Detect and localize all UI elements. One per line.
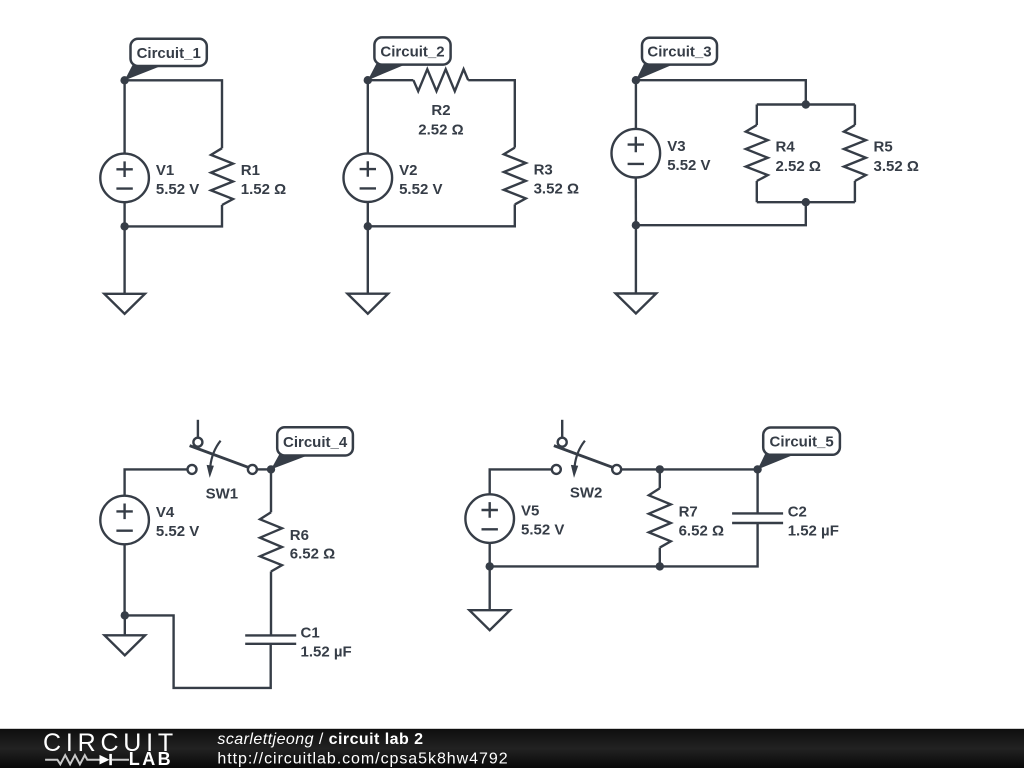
label R3 value — [534, 161, 579, 197]
label C2 value — [788, 504, 839, 540]
wire — [125, 205, 222, 226]
voltage source V3 — [612, 129, 661, 178]
svg-text:R1: R1 — [241, 162, 260, 179]
net label Circuit_3 — [636, 38, 717, 80]
svg-text:5.52 V: 5.52 V — [156, 181, 199, 198]
node (Circuit_2 bottom) — [364, 222, 372, 230]
ground — [104, 226, 145, 313]
ground — [616, 225, 657, 313]
wire — [367, 202, 369, 226]
svg-text:1.52 µF: 1.52 µF — [788, 523, 839, 540]
wire — [636, 80, 806, 104]
footer bar — [0, 729, 1024, 768]
svg-text:3.52 Ω: 3.52 Ω — [874, 158, 919, 175]
node (R7 bottom junction) — [656, 562, 664, 570]
label V2 value — [399, 162, 442, 198]
wire — [367, 80, 369, 153]
node (parallel bottom junction) — [802, 198, 810, 206]
voltage source V5 — [465, 494, 514, 543]
svg-text:R2: R2 — [431, 102, 450, 119]
switch SW2 — [552, 420, 621, 478]
wire — [757, 103, 855, 105]
svg-text:Circuit_4: Circuit_4 — [283, 434, 348, 451]
wire — [854, 181, 856, 202]
svg-text:5.52 V: 5.52 V — [667, 157, 710, 174]
resistor R6 — [260, 512, 282, 571]
wire — [854, 105, 856, 126]
svg-text:Circuit_1: Circuit_1 — [137, 45, 201, 62]
resistor R7 — [649, 488, 671, 547]
net label Circuit_4 — [271, 427, 353, 469]
capacitor C2 — [732, 513, 783, 523]
resistor R3 — [504, 148, 526, 205]
wire — [270, 572, 272, 636]
svg-text:V4: V4 — [156, 504, 175, 521]
node (Circuit_3 top) — [632, 76, 640, 84]
label R1 value — [241, 162, 286, 198]
label R4 value — [776, 138, 821, 175]
wire — [123, 202, 125, 226]
resistor R4 — [746, 125, 768, 181]
svg-text:R6: R6 — [290, 527, 309, 544]
ground — [469, 566, 510, 630]
svg-text:5.52 V: 5.52 V — [399, 181, 442, 198]
wire — [621, 468, 757, 470]
wire — [368, 79, 414, 81]
wire — [757, 201, 855, 203]
svg-text:2.52 Ω: 2.52 Ω — [776, 158, 821, 175]
svg-text:Circuit_5: Circuit_5 — [769, 434, 833, 451]
node (Circuit_2 top) — [364, 76, 372, 84]
capacitor C1 — [245, 635, 296, 643]
wire — [756, 469, 758, 513]
label V1 value — [156, 162, 199, 198]
wire — [123, 544, 125, 615]
svg-text:SW2: SW2 — [570, 485, 603, 502]
node (Circuit_5 top) — [753, 465, 761, 473]
node (Circuit_1 bottom) — [120, 222, 128, 230]
node (Circuit_5 bottom) — [486, 562, 494, 570]
svg-text:V1: V1 — [156, 162, 174, 179]
svg-text:C2: C2 — [788, 504, 807, 521]
wire — [257, 468, 271, 470]
label V4 value — [156, 504, 199, 540]
svg-text:Circuit_2: Circuit_2 — [380, 43, 444, 60]
label R5 value — [874, 138, 919, 175]
wire — [756, 105, 758, 126]
node (R7 top junction) — [656, 465, 664, 473]
svg-text:LAB: LAB — [129, 749, 173, 768]
wire — [489, 543, 491, 567]
wire — [125, 469, 188, 495]
net label Circuit_5 — [758, 428, 840, 470]
node (Circuit_4 top) — [267, 465, 275, 473]
svg-text:Circuit_3: Circuit_3 — [647, 44, 711, 61]
svg-text:6.52 Ω: 6.52 Ω — [290, 546, 335, 563]
label R7 value — [679, 503, 724, 539]
svg-text:5.52 V: 5.52 V — [156, 523, 199, 540]
svg-text:C1: C1 — [301, 624, 320, 641]
label R2 value — [418, 102, 463, 138]
wire — [635, 80, 637, 129]
node (Circuit_4 bottom) — [121, 611, 129, 619]
node (Circuit_3 bottom) — [632, 221, 640, 229]
label C1 value — [301, 624, 352, 660]
svg-text:R3: R3 — [534, 161, 553, 178]
svg-text:2.52 Ω: 2.52 Ω — [418, 121, 463, 138]
wire — [125, 80, 222, 148]
wire — [659, 548, 661, 567]
node A (Circuit_1 top) — [120, 76, 128, 84]
voltage source V2 — [344, 153, 393, 202]
net label Circuit_2 — [368, 37, 451, 80]
svg-text:5.52 V: 5.52 V — [521, 522, 564, 539]
wire — [636, 202, 806, 225]
voltage source V4 — [100, 496, 149, 545]
wire — [468, 80, 515, 147]
ground — [348, 226, 389, 313]
wire — [490, 469, 552, 494]
svg-text:V3: V3 — [667, 138, 685, 155]
wire — [270, 469, 272, 512]
resistor R1 — [211, 148, 233, 205]
net label Circuit_1 — [125, 39, 207, 81]
wire — [659, 469, 661, 488]
svg-text:R7: R7 — [679, 503, 698, 520]
ground — [105, 615, 146, 655]
svg-text:1.52 Ω: 1.52 Ω — [241, 181, 286, 198]
resistor R5 — [844, 125, 866, 181]
resistor R2 — [413, 69, 468, 91]
node (parallel top junction) — [802, 100, 810, 108]
svg-text:6.52 Ω: 6.52 Ω — [679, 522, 724, 539]
label R6 value — [290, 527, 335, 563]
wire — [635, 178, 638, 226]
svg-text:http://circuitlab.com/cpsa5k8h: http://circuitlab.com/cpsa5k8hw4792 — [217, 750, 508, 767]
svg-text:V5: V5 — [521, 503, 539, 520]
wire — [368, 204, 515, 226]
wire — [125, 615, 271, 688]
svg-text:SW1: SW1 — [206, 486, 239, 503]
svg-text:scarlettjeong / circuit lab 2: scarlettjeong / circuit lab 2 — [217, 731, 423, 748]
label V5 value — [521, 503, 564, 539]
switch SW1 — [188, 420, 257, 478]
voltage source V1 — [100, 154, 149, 203]
logo resistor-diode squiggle — [45, 754, 129, 765]
svg-text:1.52 µF: 1.52 µF — [301, 643, 352, 660]
svg-text:V2: V2 — [399, 162, 417, 179]
wire — [490, 523, 758, 566]
svg-text:3.52 Ω: 3.52 Ω — [534, 180, 579, 197]
svg-text:R5: R5 — [874, 138, 893, 155]
wire — [756, 181, 758, 202]
svg-text:R4: R4 — [776, 138, 796, 155]
wire — [123, 80, 125, 153]
label V3 value — [667, 138, 710, 174]
